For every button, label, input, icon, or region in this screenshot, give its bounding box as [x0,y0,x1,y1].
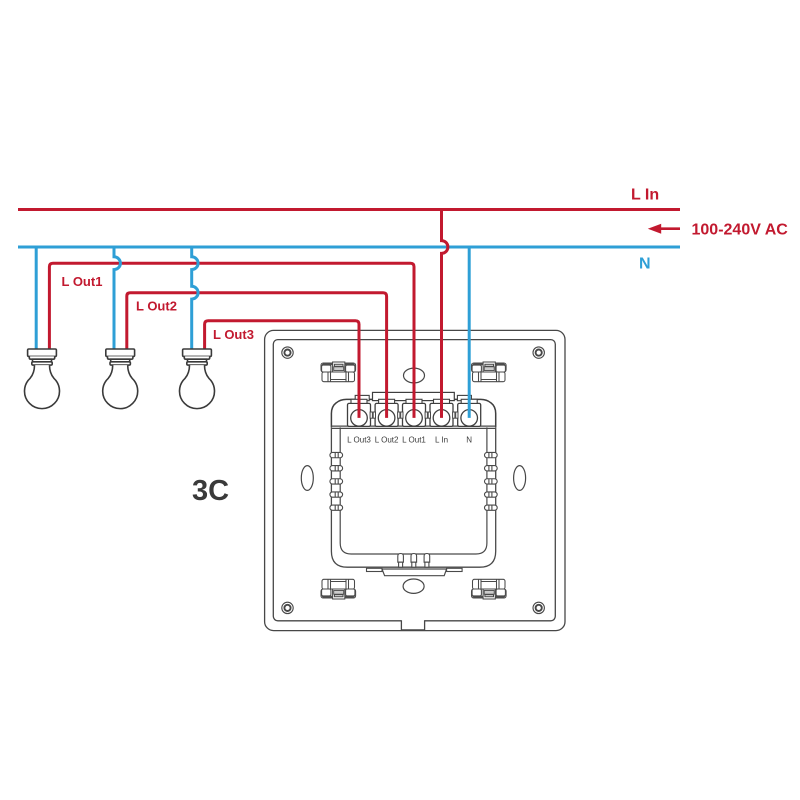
mounting clamp bottom-right [472,579,507,599]
lamp 1 [25,349,60,409]
screw top-right [533,347,544,358]
terminal row base lines [331,426,495,428]
N drop wire to terminal [468,247,471,418]
oval hole right [514,466,526,491]
svg-text:L Out2: L Out2 [136,299,177,314]
screw top-left [282,347,293,358]
lamp 2 [103,349,138,409]
svg-text:3C: 3C [192,475,229,507]
terminal 5 (N) square [458,399,481,426]
L Out1 wire [49,263,414,418]
oval hole bottom [403,579,424,593]
side lugs left [330,452,343,510]
supply arrow [659,227,681,230]
N main line (blue) [18,246,680,249]
panel bottom notch [401,619,424,622]
gap connectors between terminals [370,412,458,418]
terminal 3 (L Out1) square [403,399,426,426]
N branch to lamp1 [35,247,38,349]
svg-text:L Out2: L Out2 [375,435,399,444]
small top tab left [355,395,369,400]
svg-text:N: N [639,256,651,273]
svg-text:L In: L In [631,187,659,204]
bottom trapezoid bar [382,569,447,576]
switch module body inner wall [340,427,487,554]
svg-text:L In: L In [435,435,448,444]
bottom prongs [398,554,430,568]
switch module body outer wall [331,427,495,567]
side lugs right [485,452,498,510]
lamp 3 [180,349,215,409]
L Out3 wire [205,321,359,418]
terminal 4 (L In) square [430,399,453,426]
screw bottom-left [282,602,293,613]
mounting clamp top-left [321,362,356,382]
svg-text:L Out1: L Out1 [402,435,426,444]
L In main line (red) [18,208,680,211]
svg-text:L Out1: L Out1 [62,274,103,289]
small top tab right [457,395,471,400]
svg-text:N: N [466,435,472,444]
N branch to lamp3 with two hops [192,247,198,349]
L In drop wire with hop over N [442,210,448,418]
oval hole top [404,368,425,383]
L Out2 wire [127,293,387,418]
svg-text:100-240V AC: 100-240V AC [692,222,789,239]
top strip on terminal block [373,392,455,400]
oval hole left [301,466,313,491]
mounting clamp top-right [472,362,507,382]
svg-text:L Out3: L Out3 [347,435,371,444]
screw bottom-right [533,602,544,613]
wall switch back panel outer frame [265,330,565,630]
bottom foot right [447,568,463,571]
N branch to lamp2 with hop [114,247,120,349]
panel inner frame [273,340,555,621]
terminal 1 (L Out3) square [348,399,371,426]
terminal block shell [331,399,495,427]
svg-text:L Out3: L Out3 [213,327,254,342]
mounting clamp bottom-left [321,579,356,599]
terminal 2 (L Out2) square [375,399,398,426]
bottom foot left [367,568,383,571]
